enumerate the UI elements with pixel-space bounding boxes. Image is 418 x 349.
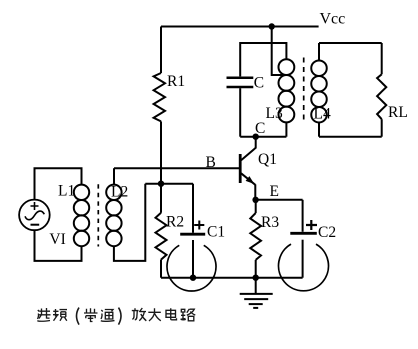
- wire base: [114, 167, 240, 169]
- wire emitter to E node: [254, 184, 256, 199]
- svg-text:C2: C2: [318, 224, 336, 241]
- capacitor C1 shell arc: [167, 245, 216, 291]
- inductor L3: [279, 59, 295, 75]
- svg-text:E: E: [270, 183, 279, 200]
- wire L2 top: [113, 168, 115, 185]
- svg-text:C: C: [254, 75, 264, 92]
- junction dot C1 ground: [190, 275, 196, 281]
- capacitor C plates: [227, 76, 254, 79]
- wire RL top: [381, 43, 383, 74]
- wire C1 bottom: [192, 240, 194, 278]
- transistor Q1 collector: [241, 137, 256, 161]
- svg-text:B: B: [206, 154, 216, 171]
- ground bar 4: [253, 307, 258, 309]
- svg-text:R3: R3: [261, 214, 279, 231]
- transistor Q1 emitter: [241, 173, 255, 185]
- inductor L2: [106, 185, 121, 200]
- ground bar 1: [240, 293, 273, 295]
- capacitor C1 plus: [194, 221, 204, 230]
- wire secondary bottom: [319, 136, 382, 138]
- 选: [37, 308, 50, 321]
- 大: [148, 308, 161, 321]
- 频: [53, 309, 67, 321]
- wire VI loop bottom: [35, 230, 82, 261]
- capacitor C1 plate: [180, 233, 205, 236]
- wire R1 top: [160, 27, 162, 74]
- wire ground rail: [161, 277, 303, 279]
- wire tank left lower: [239, 88, 241, 137]
- 路: [181, 309, 196, 321]
- 通: [101, 310, 115, 322]
- svg-text:R1: R1: [167, 73, 185, 90]
- svg-text:L3: L3: [266, 105, 283, 122]
- resistor R3: [250, 213, 261, 260]
- transistor Q1 emitter arrow: [246, 176, 255, 184]
- ）: [119, 308, 122, 325]
- svg-text:C: C: [255, 120, 265, 137]
- wire C1 top: [192, 184, 194, 233]
- source minus: [31, 224, 40, 226]
- svg-text:L1: L1: [58, 183, 75, 200]
- wire L4 top: [318, 43, 320, 61]
- junction dot bias node: [158, 181, 164, 187]
- resistor R2: [156, 213, 167, 260]
- svg-text:RL: RL: [388, 104, 408, 121]
- capacitor C2 plus: [306, 220, 317, 230]
- 电: [166, 308, 177, 320]
- wire tank bottom: [240, 136, 286, 138]
- inductor L1: [74, 185, 89, 200]
- resistor RL: [377, 74, 386, 119]
- svg-text:R2: R2: [166, 214, 184, 231]
- wire bias node: [145, 183, 193, 185]
- wire C2 bottom: [302, 240, 304, 278]
- svg-text:L4: L4: [314, 106, 331, 123]
- wire R2 bottom: [160, 260, 162, 278]
- 带: [84, 308, 98, 321]
- wire secondary top: [319, 42, 382, 44]
- junction dot ground: [253, 275, 259, 281]
- wire R3 bottom: [255, 260, 257, 278]
- wire E horizontal: [256, 199, 303, 201]
- resistor R1: [154, 73, 165, 121]
- wire C2 top: [302, 200, 304, 232]
- wire R3 top: [255, 200, 257, 213]
- transformer core dashed line left: [97, 184, 99, 246]
- ground bar 2: [244, 298, 268, 300]
- 放: [132, 308, 147, 321]
- caption 选频（带通）放大电路: [37, 308, 195, 325]
- svg-text:C1: C1: [207, 224, 225, 241]
- wire R1 bottom through base to R2: [160, 121, 162, 212]
- capacitor C2 plate: [290, 232, 317, 235]
- wire ground stem: [255, 278, 257, 294]
- wire Vcc rail: [161, 26, 319, 28]
- wire L3 bottom: [285, 122, 287, 136]
- （: [77, 308, 80, 325]
- wire VI loop top: [35, 168, 82, 200]
- svg-text:VI: VI: [49, 231, 65, 248]
- source sine wave: [25, 211, 44, 220]
- wire RL bottom: [381, 119, 383, 137]
- junction dot E node: [252, 197, 258, 203]
- capacitor C2 shell arc: [278, 244, 328, 291]
- junction dot C node: [253, 134, 259, 140]
- transistor Q1 base bar: [239, 154, 242, 183]
- svg-text:L2: L2: [111, 184, 128, 201]
- source VI circle: [19, 200, 50, 231]
- source plus: [31, 202, 39, 210]
- wire Vcc tap to L3: [272, 27, 287, 76]
- wire L4 bottom: [318, 122, 320, 136]
- wire L2 bottom loop: [114, 184, 145, 261]
- wire tank left top: [240, 43, 286, 76]
- svg-text:Q1: Q1: [258, 151, 277, 168]
- transformer core dashed line right: [303, 58, 305, 121]
- ground bar 3: [249, 303, 263, 305]
- inductor L4: [311, 60, 327, 76]
- svg-text:Vcc: Vcc: [320, 11, 346, 28]
- junction dot Vcc: [269, 23, 275, 29]
